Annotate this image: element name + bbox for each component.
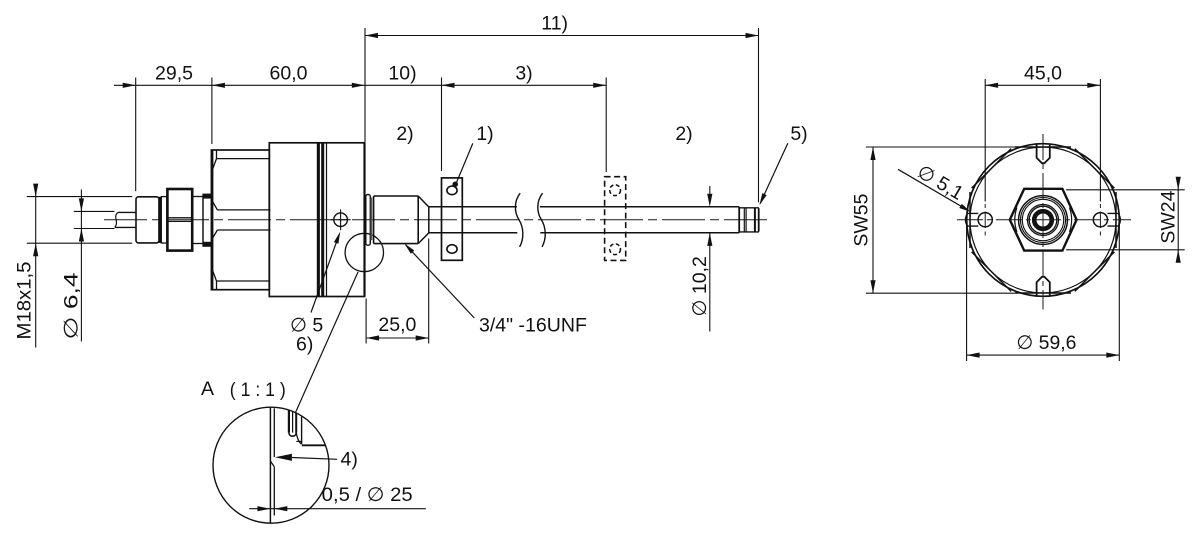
detail groove wall 3 <box>295 413 297 433</box>
detail chamfer <box>271 462 275 467</box>
rod bottom edge <box>429 232 518 234</box>
front key tab top <box>1037 144 1050 163</box>
dimension 25,0 extension lines <box>365 299 367 344</box>
extension line x135.7 <box>135 78 137 192</box>
svg-text:29,5: 29,5 <box>155 62 193 84</box>
connector neck ring <box>161 197 167 243</box>
centerline main axis <box>104 219 769 221</box>
svg-text:5): 5) <box>790 123 807 145</box>
front ring 5 <box>1029 206 1057 234</box>
dimension M18x1,5 extension lines <box>27 196 132 198</box>
dimension SW24 extension lines <box>1066 189 1185 191</box>
detail groove wall 2 <box>292 411 294 432</box>
dimension SW55 arrows <box>870 147 875 160</box>
dimension 25,0 line <box>366 337 429 339</box>
magnet slot bottom <box>447 245 457 254</box>
detail taper curve <box>296 433 301 445</box>
housing cap chamfers <box>212 159 217 172</box>
dimension 11 arrows <box>365 33 378 38</box>
phantom magnet hole top <box>610 185 621 196</box>
front centerline vertical <box>1042 134 1044 310</box>
front left mounting hole dia5,1 <box>978 213 992 227</box>
extension line x211.9 <box>211 78 213 145</box>
connector hex nut <box>167 189 192 251</box>
rod break line 1 <box>515 193 522 247</box>
svg-text:∅ 6,4: ∅ 6,4 <box>61 272 83 339</box>
svg-text:M18x1,5: M18x1,5 <box>14 261 36 339</box>
housing groove line <box>326 143 328 297</box>
phantom magnet hole bottom <box>610 244 621 255</box>
front hex chamfer arcs <box>1015 208 1017 232</box>
detail groove wall 1 <box>288 411 290 433</box>
dimension M18x1,5 arrows <box>33 184 38 197</box>
front thread ring thick <box>1034 211 1052 229</box>
front right lug <box>1108 213 1121 226</box>
front ring 4 <box>1028 205 1059 236</box>
svg-text:2): 2) <box>396 123 413 145</box>
front ring 1 <box>1019 196 1068 245</box>
svg-text:( 1 : 1 ): ( 1 : 1 ) <box>230 379 286 401</box>
front view outer circle <box>967 144 1120 297</box>
svg-text:∅ 10,2: ∅ 10,2 <box>689 256 711 316</box>
extension line x365 <box>364 28 366 143</box>
detail step line <box>296 440 301 442</box>
housing cap rim lines <box>217 158 270 160</box>
dimension 45,0 arrows <box>985 83 998 88</box>
position magnet (item 1) <box>442 178 463 260</box>
front right mounting hole <box>1093 213 1107 227</box>
housing cap outline <box>211 150 269 290</box>
leader 5) <box>760 143 788 203</box>
leader 3/4-16UNF <box>406 245 475 318</box>
dimension SW24 arrows <box>1176 177 1181 190</box>
dimension SW55 line <box>872 147 874 293</box>
dimension row arrows <box>123 83 136 88</box>
dimension SW55 extension lines <box>866 146 1015 148</box>
rod break line 2 <box>538 193 545 247</box>
housing body outline <box>269 143 364 297</box>
detail indicator circle A <box>345 233 383 271</box>
svg-text:SW24: SW24 <box>1158 190 1180 243</box>
svg-text:3/4" -16UNF: 3/4" -16UNF <box>479 314 587 336</box>
dimension row line <box>114 84 606 86</box>
connector pin break line <box>115 212 118 227</box>
svg-text:2): 2) <box>675 123 692 145</box>
dimension dia6,4 arrows <box>79 198 84 211</box>
housing o-ring band 2 <box>321 143 324 297</box>
seal washer inner line <box>370 198 372 241</box>
detail flange face line <box>302 444 325 446</box>
phantom magnet position <box>605 177 626 261</box>
svg-text:45,0: 45,0 <box>1024 62 1062 84</box>
connector coupling face band <box>158 197 161 243</box>
detail bore line <box>301 417 303 445</box>
dimension 25,0 arrows <box>366 335 379 340</box>
front centerline horizontal <box>957 219 1131 221</box>
connector pin wire <box>118 211 136 213</box>
housing cap face band <box>211 150 213 290</box>
detail face line inner <box>273 408 275 457</box>
dimension M18x1,5 line <box>35 186 37 348</box>
svg-text:25,0: 25,0 <box>378 314 416 336</box>
detail circle <box>213 407 329 523</box>
rod tip section edges <box>739 207 759 209</box>
extension line x758.5 <box>758 28 760 202</box>
dimension 0,5 arrows <box>257 506 270 511</box>
magnet slot top <box>447 186 457 195</box>
thread bushing cone <box>418 196 429 244</box>
dimension SW24 line <box>1177 178 1179 263</box>
leader dia 5 <box>311 234 339 312</box>
leader 1) <box>457 143 473 182</box>
svg-text:∅ 59,6: ∅ 59,6 <box>1016 332 1076 354</box>
dimension dia6,4 extension lines <box>74 210 115 212</box>
ground screw hole dia5 <box>334 213 348 227</box>
detail face line outer <box>269 407 271 523</box>
connector socket bore lines <box>217 209 270 211</box>
dimension 11 line <box>365 35 759 37</box>
extension line x606.2 <box>605 78 607 173</box>
detail groove bottom <box>289 433 296 437</box>
dimension dia59,6 extension lines <box>966 224 968 361</box>
dimension dia6,4 line <box>80 190 82 342</box>
front ring 3 <box>1022 199 1063 240</box>
front hole centerline right <box>1099 204 1101 208</box>
dimension dia10,2 <box>709 186 711 194</box>
seal washer <box>366 195 371 246</box>
svg-text:3): 3) <box>515 62 532 84</box>
front left lug <box>965 213 978 226</box>
dimension 0,5 line <box>249 508 426 510</box>
svg-text:SW55: SW55 <box>851 193 873 246</box>
front hole centerline left <box>984 204 986 208</box>
front view flat chords <box>970 147 1116 293</box>
svg-text:60,0: 60,0 <box>270 62 308 84</box>
front hex nut SW24 <box>1010 189 1077 251</box>
front ring 2 <box>1021 198 1066 243</box>
dimension dia59,6 line <box>967 354 1120 356</box>
svg-text:11): 11) <box>541 12 568 34</box>
connector neck 2 <box>192 197 203 244</box>
rod tip ring lines <box>738 207 740 233</box>
connector coupling cylinder M18 <box>136 197 159 243</box>
svg-text:0,5 / ∅ 25: 0,5 / ∅ 25 <box>322 484 413 506</box>
svg-text:A: A <box>201 378 214 400</box>
leader to detail A <box>296 272 359 413</box>
rod top edge <box>429 206 517 208</box>
svg-text:4): 4) <box>341 448 358 470</box>
svg-text:1): 1) <box>476 123 493 145</box>
front view chamfer circle <box>970 147 1116 293</box>
dimension 45,0 line <box>985 84 1100 86</box>
front key tab bottom <box>1037 277 1050 296</box>
housing o-ring band 1 <box>317 143 320 297</box>
housing front face band <box>363 143 365 297</box>
dimension 45,0 extension lines <box>984 79 986 202</box>
leader 4) arrow <box>275 454 292 461</box>
thread bushing 3/4-16UNF block <box>374 196 419 244</box>
svg-text:6): 6) <box>296 334 313 356</box>
dimension dia59,6 arrows <box>967 353 980 358</box>
connector thread bushing <box>203 194 212 246</box>
leader dia5,1 <box>898 169 969 211</box>
svg-text:10): 10) <box>388 62 416 84</box>
extension line x441.5 <box>441 78 443 172</box>
connector hex facet lines <box>167 217 192 219</box>
